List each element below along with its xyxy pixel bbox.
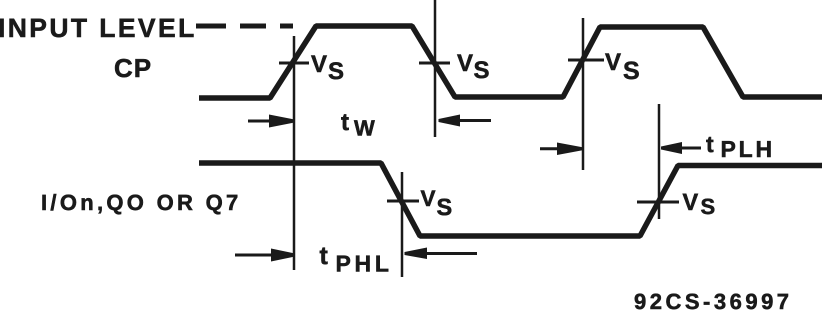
wire output waveform I/On,Q0,Q7 — [199, 163, 822, 236]
svg-text:V: V — [311, 51, 327, 78]
svg-text:S: S — [437, 194, 453, 220]
svg-text:V: V — [605, 49, 621, 76]
VS tick 2 — [419, 62, 450, 65]
VS label 2 — [457, 50, 490, 84]
svg-text:t: t — [320, 242, 329, 270]
svg-text:S: S — [701, 194, 716, 219]
VS tick 4 (output falling) — [387, 200, 419, 203]
svg-text:t: t — [341, 109, 349, 136]
node reference line 5 (output falling edge) — [401, 172, 404, 277]
svg-text:V: V — [683, 189, 699, 215]
svg-text:t: t — [706, 131, 714, 157]
node reference line 2 (CP falling edge 1) — [434, 0, 437, 137]
svg-text:V: V — [421, 186, 436, 211]
VS tick 5 (output rising) — [637, 201, 679, 204]
svg-text:I/On,QO OR Q7: I/On,QO OR Q7 — [41, 190, 242, 215]
arrow tW right — [439, 115, 492, 127]
label tW — [341, 109, 375, 141]
wire CP waveform — [199, 26, 822, 98]
VS label 1 — [311, 51, 344, 85]
arrow tPHL right — [405, 248, 478, 260]
svg-text:PHL: PHL — [336, 251, 393, 277]
arrow setup (points right to line 3) — [540, 143, 583, 156]
svg-text:92CS-36997: 92CS-36997 — [634, 289, 793, 312]
arrow tPLH (points left to line 4) — [661, 142, 701, 154]
VS label 4 — [421, 186, 453, 220]
svg-text:S: S — [328, 58, 344, 85]
VS tick 3 — [568, 59, 604, 62]
node reference line 4 (output rising edge) — [658, 104, 661, 219]
dashed input-level reference line — [196, 24, 293, 29]
svg-text:S: S — [623, 57, 640, 85]
arrow tW left — [248, 115, 295, 128]
svg-text:V: V — [457, 50, 473, 77]
svg-text:PLH: PLH — [721, 136, 775, 162]
label tPHL — [320, 242, 393, 277]
svg-text:INPUT LEVEL: INPUT LEVEL — [0, 13, 197, 43]
label tPLH — [706, 131, 775, 162]
node reference line 1 (CP rising edge 1) — [293, 36, 296, 270]
svg-text:CP: CP — [114, 53, 152, 83]
node reference line 3 (CP rising edge 2) — [582, 18, 585, 170]
svg-text:S: S — [474, 57, 490, 84]
VS label 5 — [683, 189, 716, 219]
svg-text:W: W — [354, 116, 375, 141]
arrow tPHL left — [235, 249, 295, 262]
VS label 3 — [605, 49, 640, 85]
VS tick 1 — [279, 62, 309, 65]
